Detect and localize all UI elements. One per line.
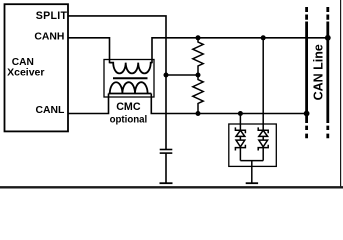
CAN bus line CANL (left, thick)	[305, 22, 308, 124]
CMC core	[113, 77, 148, 79]
wire SPLIT pin to split-node vertical	[68, 16, 166, 150]
zener diode D1b (left bottom, cathode down)	[235, 140, 245, 150]
wire TVS common bar	[240, 160, 263, 162]
CMC top winding	[110, 63, 153, 74]
CAN bus CANL dashed continuation bottom	[305, 126, 308, 139]
junction dot split line / tap	[164, 73, 169, 78]
junction dot CANH / TVS drop	[261, 35, 266, 40]
ground under D1	[246, 182, 258, 184]
wire CANH pin to CMC top-left	[68, 38, 110, 63]
figure border bottom	[0, 186, 343, 188]
CAN bus CANH dashed continuation top	[326, 7, 329, 20]
resistor R2 (termination lower)	[193, 75, 203, 114]
ground under C1	[160, 182, 173, 184]
figure border right	[340, 0, 342, 188]
CAN bus CANH dashed continuation bottom	[326, 126, 329, 139]
wire CANL to TVS left stack	[239, 114, 241, 161]
CMC bottom winding	[109, 82, 152, 93]
resistor R1 (termination upper)	[193, 38, 203, 75]
wire CANH to TVS right stack	[262, 38, 264, 161]
svg-text:CANH: CANH	[34, 31, 64, 42]
CMC common-mode choke box	[104, 60, 154, 98]
zener diode D1a (left top, cathode up)	[235, 127, 245, 136]
wire CANL pin to CMC bottom-left	[68, 94, 109, 114]
junction dot CANH / R1	[196, 35, 201, 40]
zener diode D1c (right top, cathode up)	[258, 127, 268, 136]
wire CANH from CMC top-right to CAN bus	[152, 38, 328, 63]
svg-text:CMC: CMC	[116, 101, 141, 113]
junction dot CANL / bus	[304, 111, 310, 117]
junction dot CANH / bus	[325, 35, 331, 41]
svg-text:Xceiver: Xceiver	[7, 66, 44, 78]
junction dot CANL / R2	[196, 111, 201, 116]
junction dot R1/R2 midpoint	[196, 73, 201, 78]
CAN bus CANL dashed continuation top	[305, 7, 308, 20]
svg-text:CAN Line: CAN Line	[312, 44, 326, 100]
wire CANL from CMC bottom-right to CAN bus	[151, 94, 306, 114]
CAN bus line CANH (right, thick)	[326, 22, 329, 124]
svg-text:optional: optional	[110, 114, 148, 125]
svg-text:CANL: CANL	[35, 105, 65, 116]
wire C1 to ground	[165, 153, 167, 183]
TVS diode array box D1	[229, 124, 276, 166]
zener diode D1d (right bottom, cathode down)	[258, 140, 268, 150]
CAN transceiver box U1	[5, 4, 69, 131]
wire split tap to resistor midpoint	[166, 74, 198, 76]
svg-text:SPLIT: SPLIT	[36, 10, 68, 22]
capacitor C1 plates	[160, 149, 173, 151]
wire TVS bar to ground	[251, 161, 253, 184]
junction dot CANL / TVS drop	[238, 111, 243, 116]
